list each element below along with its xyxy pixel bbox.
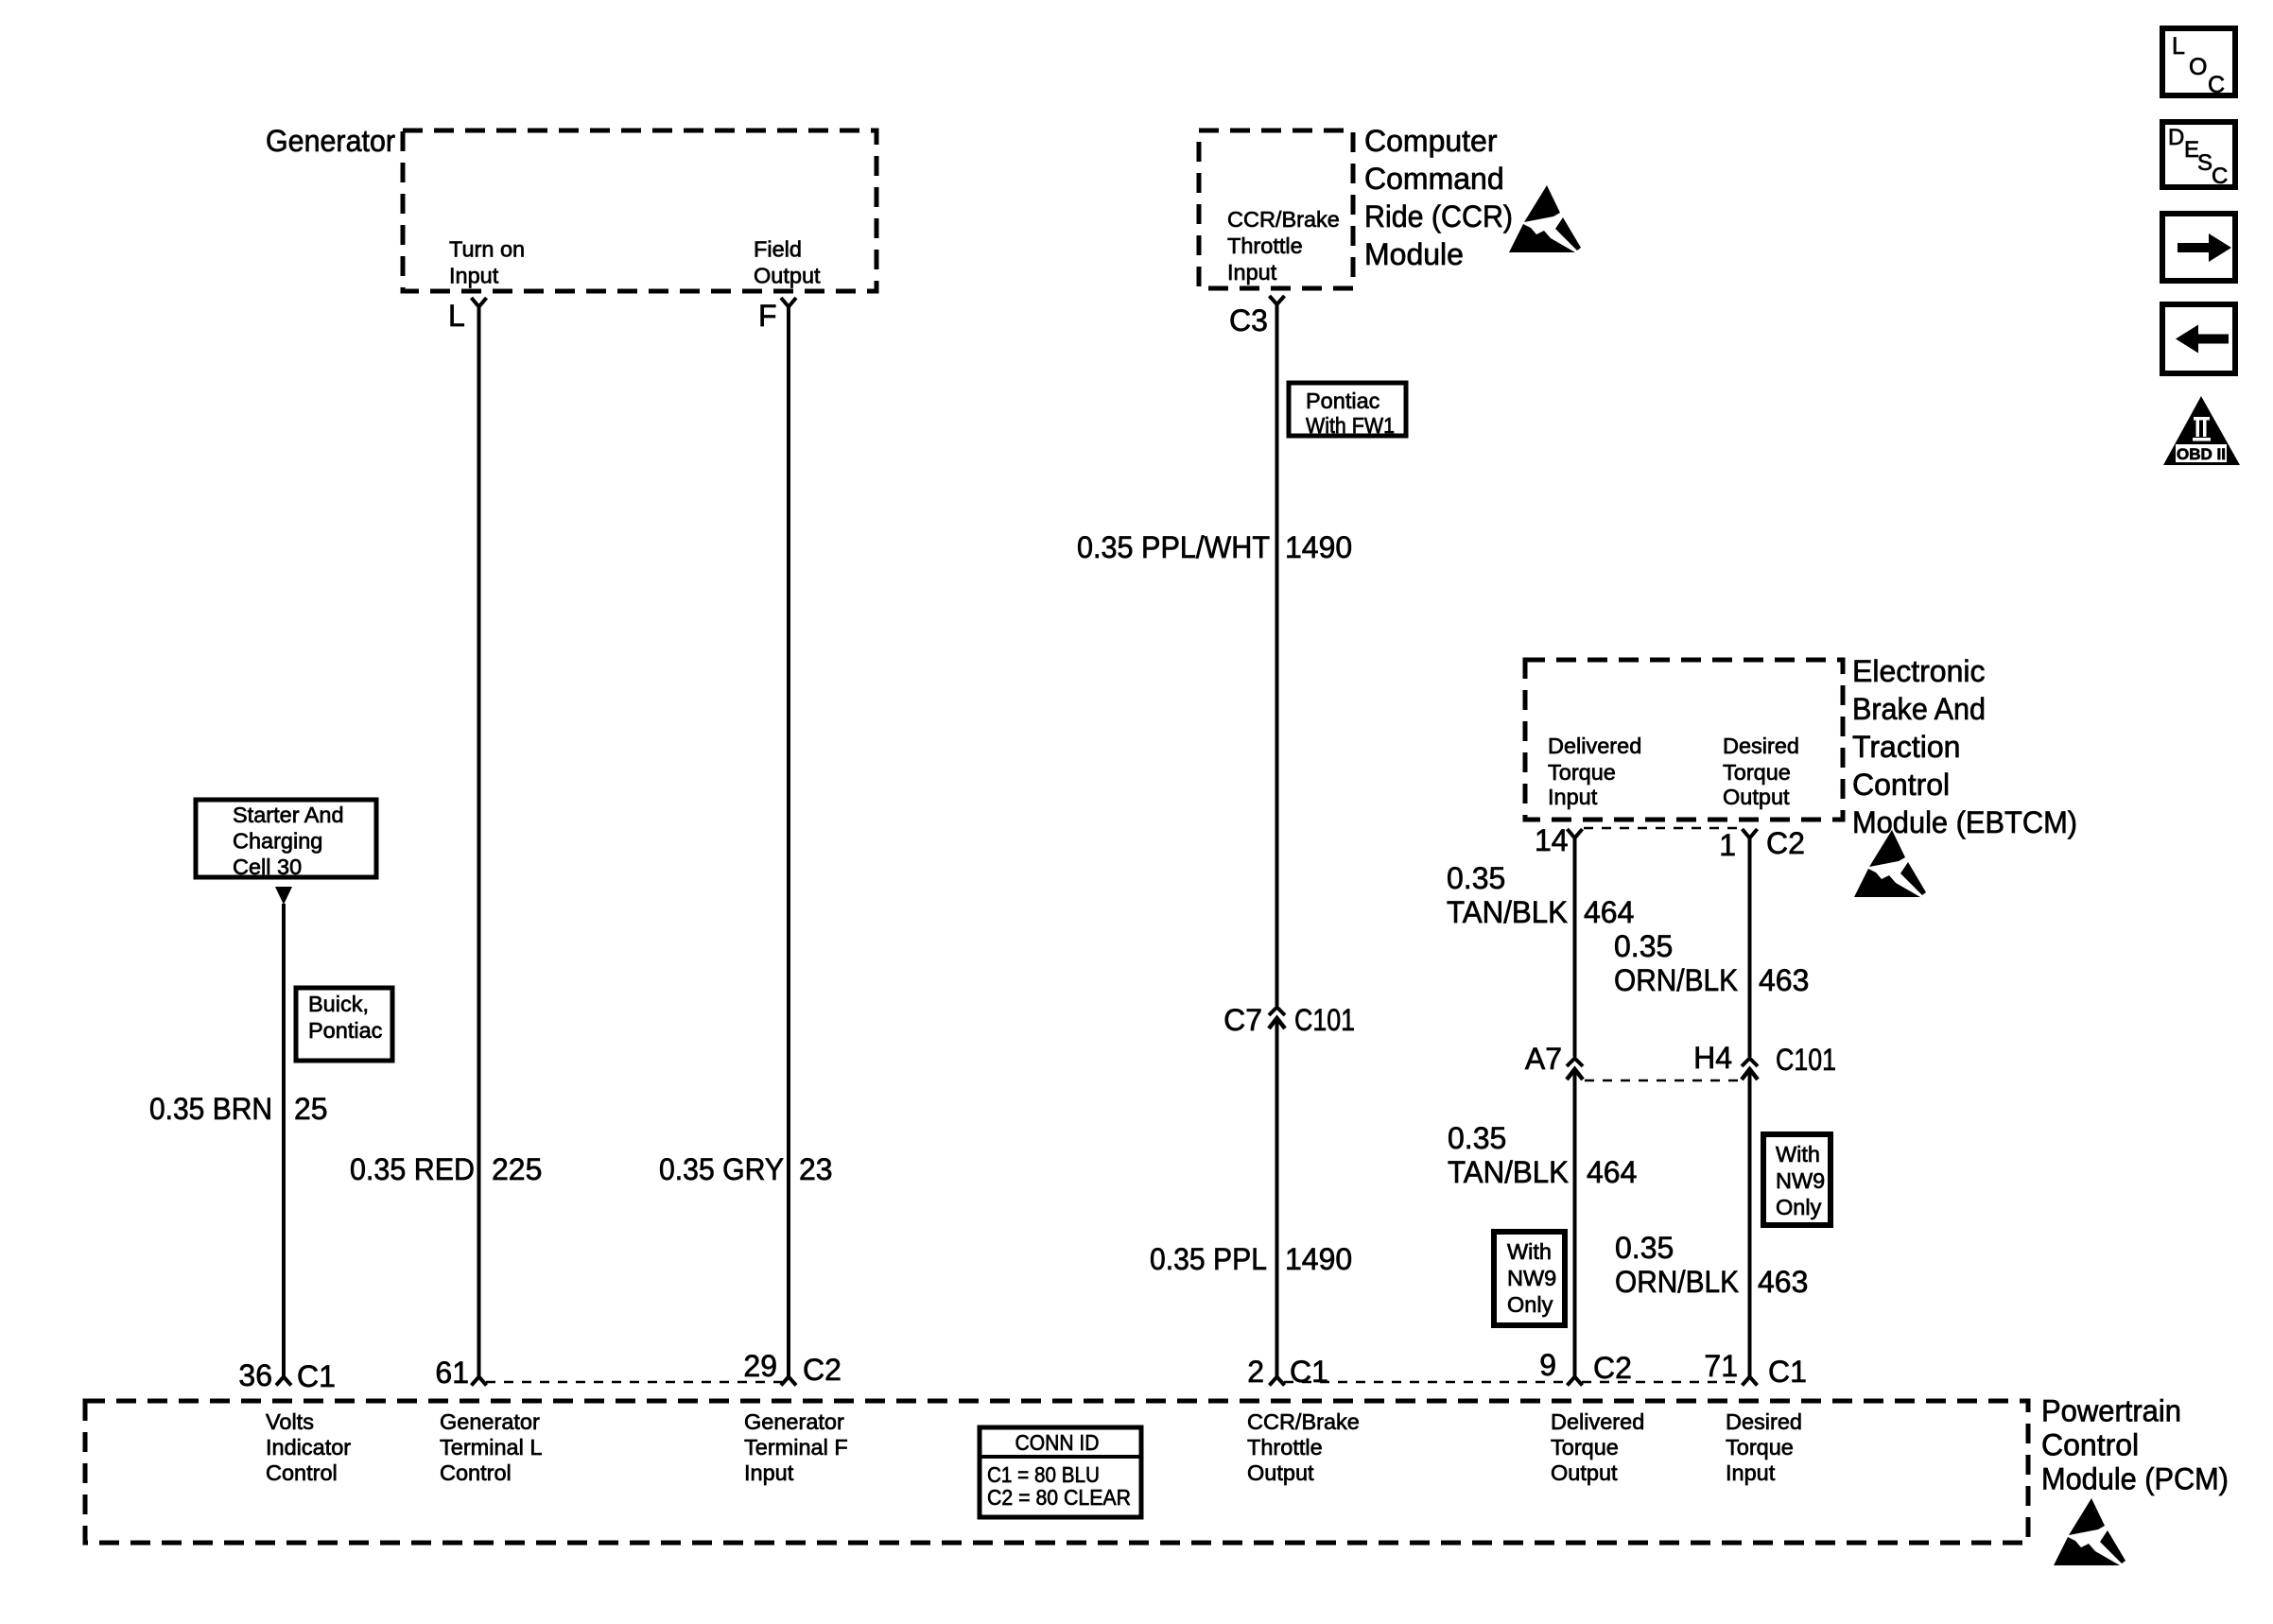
- terminal 36 label: [238, 1358, 272, 1392]
- svg-text:1490: 1490: [1285, 530, 1352, 564]
- label H4: [1693, 1041, 1732, 1075]
- ESD warning symbol at CCR module: [1509, 185, 1581, 252]
- EBTCM pin label Desired Torque Output: [1723, 734, 1799, 809]
- svg-text:Torque: Torque: [1726, 1435, 1794, 1460]
- svg-text:Cell 30: Cell 30: [233, 855, 302, 879]
- wire 0.35 TAN/BLK 464 (EBTCM 14 to C101 A7): [1573, 838, 1577, 1058]
- connector fork at EBTCM 14: [1568, 829, 1583, 838]
- svg-text:Output: Output: [1723, 785, 1790, 809]
- svg-text:Output: Output: [754, 264, 821, 288]
- svg-text:With FW1: With FW1: [1306, 413, 1395, 438]
- generator pin label Turn on Input: [449, 237, 525, 288]
- generator pin label Field Output: [754, 237, 821, 288]
- terminal 71 label: [1704, 1349, 1738, 1383]
- svg-text:25: 25: [294, 1092, 328, 1126]
- wire label 0.35 TAN/BLK 464 upper: [1447, 861, 1634, 929]
- svg-text:Desired: Desired: [1723, 734, 1799, 758]
- label C101: [1294, 1003, 1355, 1037]
- svg-text:Delivered: Delivered: [1548, 734, 1641, 758]
- EBTCM module name: [1852, 654, 2077, 839]
- CCR module name: [1364, 124, 1513, 271]
- svg-text:NW9: NW9: [1776, 1168, 1825, 1193]
- terminal C3 label: [1229, 303, 1268, 337]
- PCM module name: [2041, 1394, 2229, 1496]
- svg-text:C2: C2: [1593, 1351, 1632, 1385]
- With NW9 Only option box right: [1763, 1134, 1831, 1225]
- svg-text:61: 61: [435, 1356, 469, 1390]
- svg-text:Torque: Torque: [1548, 760, 1616, 785]
- svg-text:Traction: Traction: [1852, 730, 1960, 764]
- svg-text:464: 464: [1584, 895, 1634, 929]
- svg-text:TAN/BLK: TAN/BLK: [1447, 895, 1568, 929]
- svg-text:Field: Field: [754, 237, 802, 262]
- svg-text:C1 = 80 BLU: C1 = 80 BLU: [987, 1462, 1100, 1487]
- PCM terminal 36 fork: [276, 1377, 291, 1386]
- svg-text:With: With: [1507, 1239, 1552, 1264]
- svg-text:Generator: Generator: [266, 124, 395, 158]
- PCM terminal 9 fork: [1568, 1377, 1583, 1386]
- terminal C1 label: [297, 1359, 336, 1393]
- PCM terminal 29 fork: [781, 1377, 796, 1386]
- svg-text:Input: Input: [744, 1460, 794, 1485]
- svg-text:0.35 BRN: 0.35 BRN: [149, 1092, 272, 1126]
- connector fork at CCR C3: [1270, 296, 1285, 304]
- svg-text:H4: H4: [1693, 1041, 1732, 1075]
- label C101: [1776, 1043, 1836, 1077]
- svg-text:C101: C101: [1294, 1003, 1355, 1037]
- CCR module pin label: [1227, 207, 1340, 285]
- svg-text:Pontiac: Pontiac: [308, 1018, 383, 1043]
- svg-text:23: 23: [799, 1152, 833, 1186]
- svg-text:Only: Only: [1507, 1292, 1553, 1317]
- svg-text:Only: Only: [1776, 1195, 1822, 1219]
- wire label 0.35 PPL/WHT 1490: [1077, 530, 1352, 564]
- svg-text:With: With: [1776, 1142, 1820, 1166]
- svg-text:Powertrain: Powertrain: [2041, 1394, 2181, 1428]
- connector fork at EBTCM 1: [1743, 829, 1758, 838]
- svg-text:Input: Input: [449, 264, 499, 288]
- svg-text:9: 9: [1539, 1348, 1556, 1382]
- back arrow icon: [2162, 304, 2235, 373]
- svg-text:F: F: [758, 299, 777, 333]
- svg-text:NW9: NW9: [1507, 1266, 1556, 1290]
- svg-text:ORN/BLK: ORN/BLK: [1614, 963, 1738, 997]
- label A7: [1525, 1042, 1562, 1076]
- wire label 0.35 RED 225: [350, 1152, 542, 1186]
- svg-text:71: 71: [1704, 1349, 1738, 1383]
- svg-text:C1: C1: [1768, 1355, 1807, 1389]
- PCM terminal 2 fork: [1270, 1377, 1285, 1386]
- With NW9 Only option box left: [1494, 1232, 1565, 1325]
- svg-text:Module: Module: [1364, 237, 1464, 271]
- svg-text:0.35 RED: 0.35 RED: [350, 1152, 475, 1186]
- wire label 0.35 TAN/BLK 464 lower: [1448, 1121, 1637, 1189]
- svg-text:C: C: [2208, 72, 2225, 98]
- wire 0.35 TAN/BLK 464 (C101 A7 to PCM 9): [1573, 1070, 1577, 1377]
- PCM pin label Generator Terminal F Input: [744, 1409, 848, 1485]
- terminal C2 label: [1766, 826, 1805, 860]
- ESD warning symbol at EBTCM module: [1854, 830, 1926, 897]
- svg-text:0.35 PPL/WHT: 0.35 PPL/WHT: [1077, 530, 1270, 564]
- connector fork at generator terminal F: [781, 298, 796, 307]
- terminal 61 label: [435, 1356, 469, 1390]
- Pontiac With FW1 option box: [1289, 383, 1406, 438]
- PCM pin label CCR/Brake Throttle Output: [1247, 1409, 1360, 1485]
- svg-text:Delivered: Delivered: [1551, 1409, 1644, 1434]
- svg-text:C1: C1: [1290, 1355, 1328, 1389]
- svg-text:Terminal L: Terminal L: [440, 1435, 542, 1460]
- terminal C2 label: [803, 1353, 842, 1387]
- terminal C1 label: [1290, 1355, 1328, 1389]
- LOC icon: [2162, 28, 2235, 98]
- PCM pin label Volts Indicator Control: [266, 1409, 351, 1485]
- svg-text:C1: C1: [297, 1359, 336, 1393]
- svg-text:0.35: 0.35: [1615, 1231, 1674, 1265]
- wire label 0.35 ORN/BLK 463 lower: [1615, 1231, 1808, 1299]
- PCM terminal 71 fork: [1743, 1377, 1758, 1386]
- svg-text:CCR/Brake: CCR/Brake: [1227, 207, 1340, 232]
- svg-text:Electronic: Electronic: [1852, 654, 1986, 688]
- svg-text:Generator: Generator: [744, 1409, 844, 1434]
- svg-text:TAN/BLK: TAN/BLK: [1448, 1155, 1569, 1189]
- svg-text:225: 225: [492, 1152, 542, 1186]
- svg-text:C2 = 80 CLEAR: C2 = 80 CLEAR: [987, 1485, 1131, 1510]
- svg-text:Torque: Torque: [1723, 760, 1791, 785]
- dashed connector link 9 to 71: [1582, 1381, 1743, 1384]
- svg-text:Buick,: Buick,: [308, 992, 369, 1016]
- EBTCM module dashed box: [1525, 660, 1843, 820]
- terminal C2 label: [1593, 1351, 1632, 1385]
- terminal 29 label: [743, 1349, 777, 1383]
- svg-text:Output: Output: [1247, 1460, 1314, 1485]
- wire 0.35 PPL/WHT 1490 (CCR C3 to C101 C7): [1275, 304, 1279, 1006]
- terminal F label: [758, 299, 777, 333]
- svg-text:Throttle: Throttle: [1247, 1435, 1323, 1460]
- svg-text:2: 2: [1247, 1355, 1264, 1389]
- svg-text:Terminal F: Terminal F: [744, 1435, 848, 1460]
- wire 0.35 BRN 25 (cell 30 to PCM 36): [282, 904, 286, 1377]
- Starter And Charging Cell 30 reference box: [196, 800, 376, 879]
- svg-text:1490: 1490: [1285, 1242, 1352, 1276]
- svg-text:C2: C2: [803, 1353, 842, 1387]
- svg-text:Ride (CCR): Ride (CCR): [1364, 199, 1513, 233]
- off-page arrow from starter cell: [275, 887, 292, 905]
- PCM pin label Generator Terminal L Control: [440, 1409, 542, 1485]
- inline connector A7 C101 on TAN/BLK wire: [1567, 1059, 1583, 1080]
- svg-text:1: 1: [1719, 828, 1736, 862]
- svg-text:Control: Control: [440, 1460, 512, 1485]
- svg-text:C7: C7: [1223, 1003, 1262, 1037]
- terminal 14 label: [1535, 823, 1569, 857]
- svg-text:C: C: [2212, 164, 2228, 189]
- svg-text:463: 463: [1758, 1265, 1808, 1299]
- svg-text:C3: C3: [1229, 303, 1268, 337]
- svg-text:O: O: [2189, 54, 2207, 80]
- svg-text:OBD II: OBD II: [2177, 445, 2226, 463]
- svg-text:A7: A7: [1525, 1042, 1562, 1076]
- svg-text:Brake And: Brake And: [1852, 692, 1986, 726]
- svg-text:D: D: [2168, 125, 2184, 150]
- svg-text:ORN/BLK: ORN/BLK: [1615, 1265, 1739, 1299]
- svg-text:Turn on: Turn on: [449, 237, 525, 262]
- terminal C1 label: [1768, 1355, 1807, 1389]
- svg-text:Control: Control: [1852, 768, 1950, 802]
- svg-text:Input: Input: [1227, 260, 1277, 285]
- svg-text:Volts: Volts: [266, 1409, 314, 1434]
- OBD II icon: [2163, 396, 2240, 465]
- svg-text:S: S: [2197, 150, 2212, 176]
- svg-text:Computer: Computer: [1364, 124, 1498, 158]
- wire label 0.35 GRY 23: [659, 1152, 833, 1186]
- dashed connector link 61 to 29: [486, 1381, 782, 1384]
- svg-text:CONN ID: CONN ID: [1015, 1430, 1100, 1455]
- generator label: [266, 124, 395, 158]
- svg-text:Desired: Desired: [1726, 1409, 1802, 1434]
- svg-text:C101: C101: [1776, 1043, 1836, 1077]
- svg-text:14: 14: [1535, 823, 1569, 857]
- ESD warning symbol at PCM module: [2054, 1498, 2126, 1565]
- inline connector H4 C101 on ORN/BLK wire: [1742, 1059, 1758, 1080]
- PCM terminal 61 fork: [472, 1377, 487, 1386]
- svg-text:Output: Output: [1551, 1460, 1618, 1485]
- svg-text:36: 36: [238, 1358, 272, 1392]
- wire 0.35 RED 225 (generator L to PCM 61): [477, 307, 481, 1377]
- svg-text:Throttle: Throttle: [1227, 233, 1303, 258]
- DESC icon: [2162, 122, 2235, 189]
- svg-text:Starter And: Starter And: [233, 803, 344, 827]
- svg-text:464: 464: [1587, 1155, 1637, 1189]
- dashed connector link 14 to 1: [1584, 827, 1743, 830]
- svg-text:L: L: [448, 299, 465, 333]
- Buick Pontiac option box: [296, 988, 392, 1061]
- svg-text:Control: Control: [2041, 1428, 2139, 1462]
- svg-text:Charging: Charging: [233, 829, 322, 854]
- svg-text:L: L: [2172, 33, 2185, 60]
- connector fork at generator terminal L: [472, 298, 487, 307]
- PCM module dashed box: [85, 1401, 2028, 1543]
- svg-text:29: 29: [743, 1349, 777, 1383]
- terminal 2 label: [1247, 1355, 1264, 1389]
- PCM pin label Desired Torque Input: [1726, 1409, 1802, 1485]
- terminal 1 label: [1719, 828, 1736, 862]
- svg-text:Input: Input: [1726, 1460, 1776, 1485]
- wire 0.35 ORN/BLK 463 (EBTCM 1 to C101 H4): [1748, 838, 1752, 1058]
- svg-text:Module (EBTCM): Module (EBTCM): [1852, 805, 2077, 839]
- terminal L label: [448, 299, 465, 333]
- svg-text:0.35 GRY: 0.35 GRY: [659, 1152, 784, 1186]
- svg-text:Control: Control: [266, 1460, 338, 1485]
- svg-text:0.35 PPL: 0.35 PPL: [1150, 1242, 1267, 1276]
- svg-text:Torque: Torque: [1551, 1435, 1619, 1460]
- generator module dashed box: [403, 130, 876, 291]
- svg-text:Command: Command: [1364, 162, 1504, 196]
- svg-text:Input: Input: [1548, 785, 1598, 809]
- forward arrow icon: [2162, 214, 2235, 281]
- svg-text:0.35: 0.35: [1448, 1121, 1506, 1155]
- dashed connector link 2 to 9: [1284, 1381, 1568, 1384]
- CCR module dashed box: [1199, 130, 1353, 288]
- label C7: [1223, 1003, 1262, 1037]
- wire 0.35 ORN/BLK 463 (C101 H4 to PCM 71): [1748, 1070, 1752, 1377]
- wire 0.35 PPL 1490 (C101 C7 to PCM 2): [1275, 1019, 1279, 1377]
- svg-text:Generator: Generator: [440, 1409, 540, 1434]
- CONN ID legend box: [980, 1427, 1141, 1517]
- svg-text:463: 463: [1759, 963, 1809, 997]
- svg-text:0.35: 0.35: [1614, 929, 1673, 963]
- wire 0.35 GRY 23 (generator F to PCM 29): [787, 307, 790, 1377]
- svg-text:0.35: 0.35: [1447, 861, 1505, 895]
- svg-text:Module (PCM): Module (PCM): [2041, 1462, 2229, 1496]
- PCM pin label Delivered Torque Output: [1551, 1409, 1644, 1485]
- svg-text:CCR/Brake: CCR/Brake: [1247, 1409, 1360, 1434]
- dashed connector link A7 to H4: [1585, 1080, 1743, 1082]
- wire label 0.35 ORN/BLK 463 upper: [1614, 929, 1809, 997]
- svg-text:C2: C2: [1766, 826, 1805, 860]
- wire label 0.35 BRN 25: [149, 1092, 328, 1126]
- EBTCM pin label Delivered Torque Input: [1548, 734, 1641, 809]
- inline connector C7 C101 on PPL wire: [1269, 1008, 1285, 1029]
- svg-text:Pontiac: Pontiac: [1306, 389, 1380, 413]
- svg-text:Indicator: Indicator: [266, 1435, 351, 1460]
- terminal 9 label: [1539, 1348, 1556, 1382]
- wire label 0.35 PPL 1490: [1150, 1242, 1352, 1276]
